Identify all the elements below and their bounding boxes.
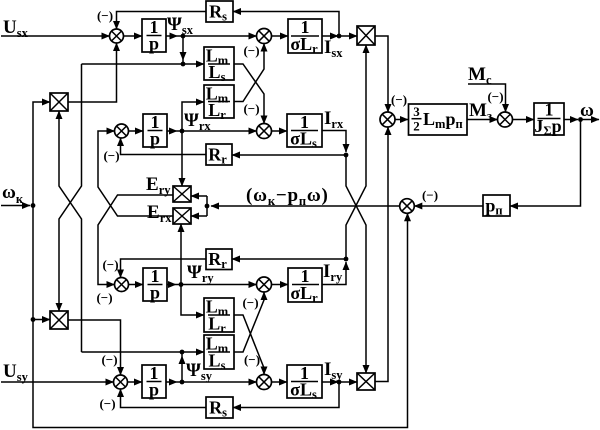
svg-text:p: p (150, 129, 160, 149)
wire Psi_sx to lower multiplier (59, 64, 82, 311)
wire Psi_rx up to Lm/Lr (182, 102, 204, 131)
svg-text:p: p (150, 283, 160, 303)
summing junction S1rx (115, 124, 129, 138)
summing junction S2sx (257, 29, 272, 44)
multiplier Ery (173, 186, 191, 202)
wire Usy input (1, 381, 114, 383)
node Psi_sx (181, 34, 186, 39)
wire Psi_sy to S2sy (177, 381, 257, 383)
wire Rs feedback bottom (233, 382, 339, 408)
gain block 1/sigmaLr sx (288, 17, 322, 56)
gain block Rs bottom (206, 397, 233, 420)
wire Lm/Ls to S2rx top (234, 64, 264, 124)
integrator 1/p sx (142, 17, 166, 54)
svg-text:(−): (−) (102, 257, 118, 272)
integrator 1/p sy (142, 363, 166, 400)
wire Rr to S1ry top (121, 259, 207, 278)
wire Psi_ry up to Erx multiplier (180, 224, 182, 285)
wire Rr to S1rx bottom (121, 138, 207, 155)
svg-text:(−): (−) (243, 43, 259, 58)
wire Psi_ry down to Lm/Lr (181, 285, 204, 316)
wire Iry (322, 262, 346, 285)
svg-text:(−): (−) (244, 352, 260, 367)
wire Isx to multiplier (339, 35, 357, 37)
svg-text:(−): (−) (243, 101, 259, 116)
node Isy (337, 380, 342, 385)
wire M3 to 3/2Lmpn (395, 119, 408, 121)
wire omega_k input (1, 205, 30, 207)
svg-text:(−): (−) (99, 396, 115, 411)
summing junction S1sy (114, 375, 128, 389)
wire Psi_ry (167, 284, 176, 286)
node Iry (344, 257, 349, 262)
svg-text:(−): (−) (101, 352, 117, 367)
summing junction slip (400, 199, 415, 214)
wire S1rx to integrator (129, 130, 144, 132)
wire Psi_sy up branch (181, 356, 183, 382)
gain block 1/sigmaLr ry (288, 266, 322, 305)
node Psi_sx branch (181, 62, 186, 67)
wire Iry up to upper multiplier (346, 45, 366, 259)
svg-text:(−): (−) (97, 8, 113, 23)
multiplier Isy*Irx (357, 373, 375, 390)
wire Psi_sy horizontal to Lm/Ls (82, 351, 205, 353)
wire Rs to S1sy bottom (121, 389, 207, 408)
node Psi_ry (179, 282, 184, 287)
wire Psi_sy branch to node (181, 352, 183, 356)
wire Isx (322, 35, 338, 37)
node Psi_sy (180, 380, 185, 385)
wire Psi_sx (166, 35, 178, 37)
summing junction Mc (498, 112, 513, 127)
gain block Rs top (206, 1, 233, 24)
wire M_e to Mc sum (467, 119, 498, 121)
wire lower multiplier to S1sy top (68, 320, 121, 375)
integrator 1/p ry (143, 266, 167, 303)
gain block Lm/Ls bottom (204, 334, 234, 373)
wire Irx to Rr (232, 154, 346, 156)
wire multiplier to M3 sum bottom (375, 127, 388, 382)
wire Psi_rx down to Ery multiplier (181, 131, 183, 186)
summing junction S2ry (257, 277, 272, 292)
wire S2ry to 1/sigmaLr (272, 284, 289, 286)
wire Ery output to S1ry (98, 195, 173, 285)
wire Lm/Ls to S2ry bottom (234, 292, 264, 352)
gain block 1/JSp (534, 100, 564, 139)
wire Psi_sy (166, 381, 177, 383)
multiplier Erx (173, 208, 191, 224)
wire omega feedback to pn (510, 120, 581, 207)
wire node to Erx right (191, 215, 207, 217)
wire multiplier to M3 sum (375, 36, 388, 112)
wire Isy (322, 381, 338, 383)
wire Lm/Lr to S2sx bottom (234, 44, 264, 102)
gain block 1/sigmaLs sy (287, 363, 322, 402)
wire Lm/Lr to S2sy top (234, 315, 264, 375)
multiplier omega*Psi_sx (50, 311, 68, 329)
wire S1sy to integrator (128, 381, 143, 383)
svg-text:(ωк−pпω): (ωк−pпω) (246, 185, 329, 208)
gain block Rr rx (206, 144, 232, 167)
gain block Rr ry (206, 249, 232, 271)
wire Irx down to lower multiplier (346, 155, 366, 373)
svg-text:(−): (−) (487, 89, 503, 104)
wire Erx output to S1rx (98, 131, 173, 216)
wire Psi_sx to S2sx (178, 35, 257, 37)
node Psi_sy branch (180, 350, 185, 355)
node slip speed (205, 204, 210, 209)
svg-text:(−): (−) (96, 290, 112, 305)
wire Psi_sx down branch (182, 36, 184, 60)
wire omega_k to lower multiplier (33, 319, 50, 321)
node omega_k (31, 203, 36, 208)
node Isx (337, 34, 342, 39)
wire node to Ery right (191, 195, 207, 197)
wire pn to slip sum (414, 205, 483, 207)
wire omega_k bus middle (32, 206, 34, 320)
svg-text:3: 3 (413, 104, 420, 119)
wire S2sx to 1/sigmaLr (272, 35, 289, 37)
wire Rs to S1sx (117, 12, 207, 30)
wire node riser (206, 196, 208, 216)
svg-text:ω: ω (580, 100, 594, 121)
multiplier Isx*Iry (357, 26, 375, 45)
wire Psi_rx (167, 130, 177, 132)
summing junction S2rx (257, 124, 272, 139)
multiplier omega*Psi_sy (50, 93, 68, 111)
wire Psi_sx horizontal to Lm/Ls (82, 63, 205, 65)
integrator 1/p rx (143, 112, 167, 149)
svg-text:p: p (149, 380, 159, 400)
node Irx (344, 153, 349, 158)
wire slip speed line (211, 205, 400, 207)
summing junction S2sy (257, 375, 272, 390)
wire upper multiplier to S1sx bottom (68, 43, 117, 102)
svg-text:(−): (−) (391, 92, 407, 107)
wire Psi_rx to S2rx (177, 130, 257, 132)
node omega_k lower (31, 317, 36, 322)
wire M_c input (468, 84, 506, 112)
summing junction M3 (380, 112, 395, 127)
node Psi_rx (180, 129, 185, 134)
summing junction S1ry (115, 278, 129, 292)
wire Rs feedback top (233, 12, 339, 37)
wire omega_k bus bottom (33, 213, 408, 427)
wire Isy to multiplier (339, 381, 357, 383)
node omega (578, 117, 583, 122)
wire Mc sum to 1/Jp (513, 119, 535, 121)
wire omega_k bus top (33, 102, 50, 206)
svg-text:(−): (−) (242, 295, 258, 310)
wire S1sx to integrator (124, 35, 143, 37)
gain block 3/2 Lm pn (409, 104, 468, 135)
wire Iry to Rr (232, 258, 346, 260)
gain block pn (483, 195, 510, 218)
wire omega output (564, 119, 578, 121)
wire Psi_sy to upper multiplier (59, 111, 82, 352)
wire S2rx to 1/sigmaLs (272, 130, 288, 132)
wire omega arrow out (581, 119, 600, 121)
svg-text:2: 2 (413, 119, 420, 134)
gain block Lm/Ls top (204, 46, 234, 85)
svg-text:(−): (−) (103, 148, 119, 163)
svg-text:(−): (−) (422, 188, 438, 203)
wire Usx input (1, 35, 110, 37)
wire S2sy to 1/sigmaLs (272, 381, 288, 383)
wire Psi_sx branch to node (182, 60, 184, 64)
wire S1ry to integrator (129, 284, 144, 286)
gain block Lm/Lr bottom (204, 297, 234, 336)
gain block Lm/Lr top (204, 84, 234, 123)
gain block 1/sigmaLs rx (287, 112, 322, 151)
wire Psi_ry to S2ry (176, 284, 257, 286)
svg-text:p: p (149, 34, 159, 54)
summing junction S1sx (110, 29, 124, 43)
wire Irx (322, 131, 346, 153)
